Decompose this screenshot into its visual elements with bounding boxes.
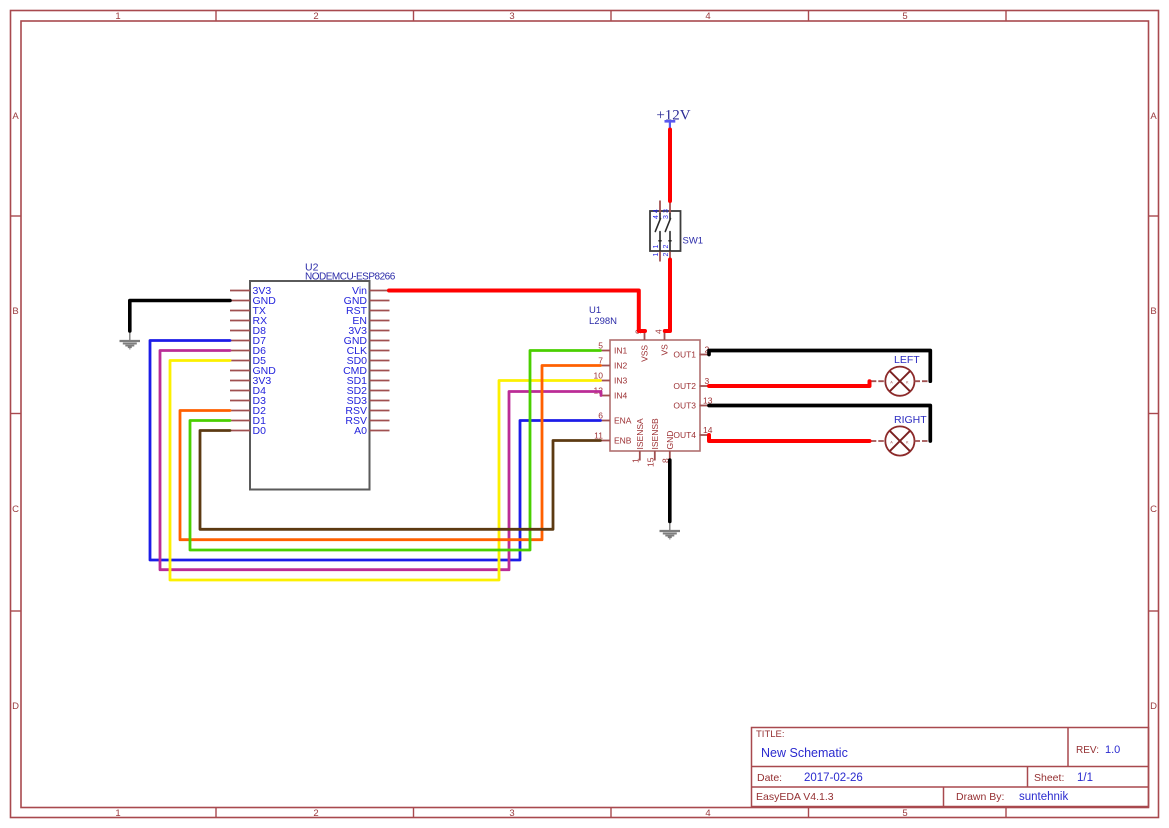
svg-text:SW1: SW1	[683, 236, 704, 247]
U1 left pin names	[614, 345, 632, 445]
svg-text:C: C	[1150, 504, 1157, 515]
svg-text:4: 4	[653, 215, 660, 219]
U1 top pin stubs	[645, 331, 665, 341]
op U1 L298N body	[589, 305, 700, 451]
U1 right pin names	[673, 349, 696, 440]
svg-text:TITLE:: TITLE:	[756, 729, 785, 740]
svg-text:5: 5	[598, 341, 603, 351]
SW1 switch blades and contacts	[655, 214, 671, 252]
svg-text:A: A	[12, 111, 19, 122]
wire black U2 GND to ground	[130, 301, 230, 332]
svg-text:RIGHT: RIGHT	[894, 414, 927, 426]
svg-text:7: 7	[598, 356, 603, 366]
svg-text:D0: D0	[253, 425, 267, 437]
wire yellow D5 to IN3	[170, 361, 601, 581]
wire brown D0 to ENB	[200, 431, 601, 530]
svg-text:GND: GND	[665, 431, 675, 450]
svg-text:IN1: IN1	[614, 345, 628, 355]
svg-text:2: 2	[313, 808, 318, 819]
svg-text:1: 1	[631, 458, 641, 463]
wire black OUT3 to RIGHT lamp	[709, 406, 930, 442]
U2 right pin names	[343, 285, 368, 437]
svg-text:REV:: REV:	[1076, 745, 1099, 756]
wire red OUT2 to LEFT lamp	[709, 381, 870, 386]
wire magenta D6 to IN4	[160, 351, 601, 570]
svg-text:4: 4	[705, 808, 710, 819]
svg-text:B: B	[1150, 306, 1156, 317]
title block	[752, 728, 1149, 807]
svg-text:OUT2: OUT2	[673, 381, 696, 391]
svg-text:1: 1	[115, 11, 120, 22]
wire red +12V to SW1	[668, 130, 672, 202]
svg-text:B: B	[12, 306, 18, 317]
svg-text:15: 15	[646, 457, 656, 467]
svg-text:10: 10	[594, 371, 604, 381]
svg-text:OUT1: OUT1	[673, 349, 696, 359]
wire blue D7 to ENA	[150, 341, 601, 561]
wire orange D2 to IN2	[180, 366, 601, 540]
U2 NODEMCU-ESP8266 body	[250, 262, 396, 490]
border column numbers	[115, 11, 907, 819]
svg-text:4: 4	[653, 209, 660, 213]
U1 pin numbers	[594, 329, 713, 467]
svg-text:VSS: VSS	[640, 345, 650, 362]
svg-text:2017-02-26: 2017-02-26	[804, 772, 863, 784]
U1 left pin stubs	[600, 351, 610, 441]
svg-text:2: 2	[313, 11, 318, 22]
U1 rotated pin names VSS VS ISENSA ISENSB GND	[635, 344, 675, 450]
svg-text:Date:: Date:	[757, 772, 782, 784]
svg-text:ENB: ENB	[614, 435, 632, 445]
SW1 blue pin numbers	[653, 209, 670, 257]
svg-text:OUT3: OUT3	[673, 400, 696, 410]
svg-text:2: 2	[663, 245, 670, 249]
svg-text:ISENSA: ISENSA	[635, 418, 645, 450]
svg-text:3: 3	[509, 11, 514, 22]
title block texts	[756, 729, 1099, 803]
U2 left pin names	[253, 285, 277, 437]
svg-text:2: 2	[663, 253, 670, 257]
U2 right pin stubs	[370, 291, 390, 431]
svg-text:U1: U1	[589, 305, 601, 316]
svg-text:4: 4	[654, 329, 664, 334]
svg-text:D: D	[12, 701, 19, 712]
svg-text:4: 4	[705, 11, 710, 22]
U1 right pin stubs	[700, 355, 710, 436]
svg-text:IN4: IN4	[614, 390, 628, 400]
svg-text:3: 3	[663, 209, 670, 213]
svg-text:VS: VS	[660, 344, 670, 356]
svg-text:1: 1	[115, 808, 120, 819]
svg-text:EasyEDA V4.1.3: EasyEDA V4.1.3	[756, 791, 834, 803]
ground symbol left	[120, 331, 141, 349]
wire red OUT4 to RIGHT lamp	[709, 435, 870, 441]
svg-text:IN2: IN2	[614, 360, 628, 370]
svg-text:6: 6	[598, 411, 603, 421]
svg-text:New Schematic: New Schematic	[761, 746, 848, 760]
lamp LEFT	[871, 354, 929, 396]
wire black OUT1 to LEFT lamp	[709, 351, 930, 382]
svg-text:ENA: ENA	[614, 415, 632, 425]
SW1 pin stubs	[660, 201, 670, 262]
wire red SW1 to VS	[665, 260, 670, 332]
lamp RIGHT	[871, 414, 929, 456]
svg-text:Sheet:: Sheet:	[1034, 772, 1064, 784]
svg-text:L298N: L298N	[589, 316, 617, 327]
wire green D1 to IN1	[190, 351, 601, 551]
power flag +12V	[656, 108, 690, 130]
wire red Vin to VSS	[389, 291, 645, 332]
svg-text:ISENSB: ISENSB	[650, 418, 660, 450]
svg-text:A0: A0	[354, 425, 367, 437]
svg-text:1: 1	[653, 245, 660, 249]
svg-text:NODEMCU-ESP8266: NODEMCU-ESP8266	[305, 272, 396, 283]
svg-text:3: 3	[663, 215, 670, 219]
svg-text:11: 11	[594, 431, 603, 441]
svg-text:Drawn By:: Drawn By:	[956, 791, 1004, 803]
svg-text:suntehnik: suntehnik	[1019, 791, 1068, 803]
U2 left pin stubs	[230, 291, 250, 431]
border row letters	[12, 111, 1157, 712]
svg-text:3: 3	[509, 808, 514, 819]
ground symbol bottom	[660, 522, 681, 539]
svg-text:A: A	[1150, 111, 1157, 122]
svg-text:D: D	[1150, 701, 1157, 712]
svg-text:1.0: 1.0	[1105, 744, 1120, 756]
svg-text:IN3: IN3	[614, 375, 628, 385]
svg-text:1/1: 1/1	[1077, 772, 1093, 784]
svg-text:5: 5	[902, 11, 907, 22]
svg-text:LEFT: LEFT	[894, 354, 920, 366]
U1 bottom pin stubs	[640, 451, 670, 461]
svg-text:5: 5	[902, 808, 907, 819]
switch SW1 body	[650, 211, 703, 251]
wire black U1 GND pin8 to ground	[668, 460, 672, 522]
svg-text:OUT4: OUT4	[673, 430, 696, 440]
svg-text:1: 1	[653, 253, 660, 257]
svg-text:C: C	[12, 504, 19, 515]
